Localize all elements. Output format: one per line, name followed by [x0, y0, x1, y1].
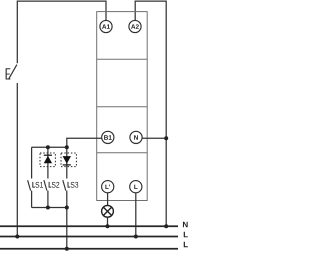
junction dot (47.9,147.2): [46, 145, 50, 149]
label S1 (L + text): [32, 182, 35, 188]
junction dot (66.8,248.7): [65, 247, 69, 251]
switch E lever: [9, 65, 17, 79]
wire: lamp to N bus: [107, 217, 109, 226]
lamp (circle with X): [102, 205, 114, 217]
terminal N: [130, 131, 142, 143]
wire: button bottom bus: [32, 207, 67, 209]
junction dot (135.8,236.5): [134, 235, 138, 239]
switch S3 lever: [63, 180, 66, 190]
glow-lamp dashed box at S2: [40, 153, 55, 167]
wire: top feed from switch E to terminal A1: [17, 1, 106, 63]
junction dot (17.3,236.5): [15, 235, 19, 239]
wire S1 upper branch: [31, 147, 33, 178]
device box: [97, 12, 148, 201]
device divider 3: [97, 152, 148, 154]
terminal Lprime: [102, 181, 114, 193]
wire: Lprime down to lamp: [107, 193, 109, 206]
device divider 1: [97, 58, 148, 60]
terminal A1: [100, 20, 112, 32]
device divider 2: [97, 106, 148, 108]
wire S2 upper branch: [47, 147, 49, 178]
bus line L middle: [0, 236, 178, 238]
label S2 (L + text): [49, 182, 52, 188]
wire S3 lower: [66, 191, 68, 208]
label E: [6, 68, 11, 79]
wire S1 lower: [31, 191, 33, 208]
label S3 (L + text): [68, 182, 71, 188]
switch S2 lever: [44, 180, 47, 190]
junction dot (166.2,226.2): [164, 224, 168, 228]
glow-lamp dashed box at S3: [61, 153, 76, 167]
junction dot (166.2,138.3): [164, 136, 168, 140]
wire: S3 down to bottom L bus: [66, 208, 68, 249]
wire S3 upper branch: [66, 147, 68, 178]
junction dot (66.8,147.2): [65, 145, 69, 149]
wire: N right to rail: [142, 137, 166, 139]
wire: E lower down to L bus: [16, 83, 18, 237]
diode (up) in S2 branch: [44, 156, 52, 164]
label bus L bottom: [184, 242, 188, 248]
bus line N: [0, 225, 178, 227]
wire: B1 left to push-button bus: [32, 138, 102, 147]
terminal A2: [129, 20, 141, 32]
bus line L bottom: [0, 248, 178, 250]
junction dot (107.5,226.2): [106, 224, 110, 228]
junction dot (47.9,207.5): [46, 206, 50, 210]
switch S1 lever: [28, 180, 31, 190]
wire S2 lower: [47, 191, 49, 208]
label bus N: [183, 222, 188, 228]
wire: L terminal down to L bus: [135, 193, 137, 237]
diode (down) in S3 branch: [63, 156, 71, 164]
label bus L middle: [184, 232, 188, 238]
terminal L: [130, 181, 142, 193]
wire: A2 up over top to right rail down to N bus: [135, 1, 166, 226]
terminal B1: [102, 131, 114, 143]
junction dot (66.8,207.5): [65, 206, 69, 210]
